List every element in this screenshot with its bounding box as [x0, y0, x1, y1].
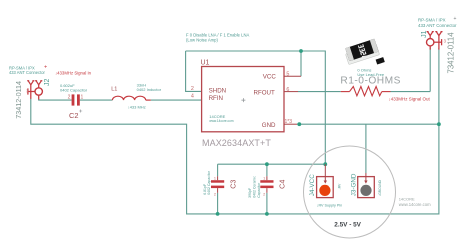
svg-text:VCC: VCC	[263, 73, 277, 80]
svg-text:C2: C2	[69, 111, 78, 120]
svg-text:14CORE: 14CORE	[399, 196, 415, 201]
svg-text:4: 4	[191, 94, 194, 100]
svg-text:Capacitor: Capacitor	[257, 182, 261, 198]
svg-text:RFOUT: RFOUT	[253, 90, 275, 97]
svg-text:J3-GND: J3-GND	[350, 173, 357, 196]
svg-text:J1: J1	[421, 30, 428, 38]
svg-text:J4-VCC: J4-VCC	[309, 174, 316, 196]
svg-text:2: 2	[263, 193, 265, 197]
svg-text:↓GROUND: ↓GROUND	[378, 179, 382, 196]
svg-text:0402 Capacitor: 0402 Capacitor	[207, 170, 211, 195]
svg-text:2: 2	[214, 193, 216, 197]
svg-text:MAX2634AXT+T: MAX2634AXT+T	[202, 138, 271, 148]
svg-text:↓433MHz Signal Out: ↓433MHz Signal Out	[389, 96, 431, 101]
svg-text:73412-0114: 73412-0114	[14, 81, 23, 119]
svg-text:0402 Capacitor: 0402 Capacitor	[60, 88, 88, 93]
svg-text:www.14core.com: www.14core.com	[209, 119, 234, 123]
svg-text:2: 2	[68, 95, 71, 101]
svg-text:C4: C4	[278, 180, 287, 189]
svg-text:73412-0114: 73412-0114	[446, 32, 455, 74]
svg-text:1: 1	[263, 177, 265, 181]
svg-text:0402 Inductor: 0402 Inductor	[137, 87, 162, 92]
svg-text:www.14core.com: www.14core.com	[399, 202, 431, 207]
svg-text:↓RV Supply Pin: ↓RV Supply Pin	[317, 204, 343, 208]
svg-text:J2: J2	[44, 79, 51, 87]
svg-text:2.5V - 5V: 2.5V - 5V	[334, 221, 361, 228]
svg-text:RP-SMA / IPX: RP-SMA / IPX	[418, 18, 446, 23]
svg-text:C3: C3	[228, 180, 237, 189]
svg-text:1: 1	[214, 177, 216, 181]
svg-text:U1: U1	[201, 60, 210, 67]
svg-text:↓433MHz Signal In: ↓433MHz Signal In	[55, 70, 92, 75]
svg-text:1: 1	[81, 95, 84, 101]
svg-text:6: 6	[286, 87, 289, 93]
svg-text:5: 5	[286, 71, 289, 77]
svg-text:RFIN: RFIN	[209, 95, 223, 102]
svg-text:1*3: 1*3	[285, 119, 293, 125]
svg-text:Use Lead-Free: Use Lead-Free	[357, 72, 384, 77]
svg-text:(Low Noise Amp): (Low Noise Amp)	[186, 38, 218, 43]
svg-text:SHDN: SHDN	[209, 88, 227, 95]
svg-text:L1: L1	[111, 87, 117, 93]
svg-text:GND: GND	[262, 122, 276, 129]
svg-text:2: 2	[191, 86, 194, 92]
svg-text:↓433 MHz: ↓433 MHz	[128, 104, 146, 109]
svg-text:433 ANT Connector: 433 ANT Connector	[418, 23, 457, 28]
svg-text:433 ANT Connector: 433 ANT Connector	[9, 70, 46, 75]
svg-text:↓RV: ↓RV	[338, 183, 342, 190]
svg-text:+: +	[454, 16, 457, 22]
